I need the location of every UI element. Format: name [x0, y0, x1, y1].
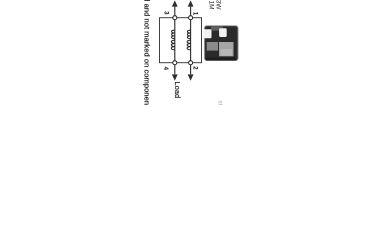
svg-text:sti: sti: [217, 101, 223, 106]
pin terminal circle 1 (left upper): [189, 16, 193, 20]
photo solder pad upper: [219, 28, 227, 37]
arrow at pin 1 pointing left: [188, 0, 194, 15]
svg-text:ted and not marked on componen: ted and not marked on component an: [143, 0, 152, 105]
component photo: SMD common-mode choke: [204, 26, 239, 61]
pin terminal circle 3 (left lower): [173, 16, 177, 20]
arrow at pin 2 pointing right to load: [188, 65, 194, 81]
Load label: [173, 82, 182, 99]
photo body: [204, 26, 238, 61]
photo solder pad lower: [204, 29, 212, 38]
winding L1 (pins 1-2), upper wire: [187, 20, 190, 61]
svg-text:Load: Load: [173, 82, 182, 99]
pin terminal circle 2 (right upper): [189, 61, 193, 65]
svg-text:1M: 1M: [208, 0, 215, 9]
arrow at pin 3 pointing left: [172, 0, 178, 15]
pin number 3 label: [163, 11, 170, 15]
caption text line: and not marked on component: [143, 0, 152, 118]
svg-text:2: 2: [191, 66, 198, 70]
svg-text:3: 3: [163, 11, 170, 15]
photo left gray band: [211, 26, 223, 30]
photo mid gray panel: [207, 42, 218, 51]
photo panel shading: [221, 49, 233, 56]
schematic: component outline box: [160, 18, 202, 63]
photo body inner dark: [206, 27, 237, 59]
pin terminal circle 4 (right lower): [173, 61, 177, 65]
photo top face light panel: [219, 42, 234, 56]
svg-text:1: 1: [192, 12, 199, 16]
winding L2 (pins 3-4), lower wire: [171, 20, 175, 61]
arrow at pin 4 pointing right to load: [172, 65, 178, 81]
pin number 1 label: [192, 12, 199, 16]
clipped spec text fragment line 2: [208, 0, 215, 9]
photo dark edge right: [206, 58, 237, 61]
pin number 2 label: [191, 66, 198, 70]
clipped spec text fragment line 1: [215, 0, 222, 10]
svg-text:4: 4: [162, 67, 169, 71]
pin number 4 label: [162, 67, 169, 71]
svg-text:3W: 3W: [215, 0, 222, 10]
clipped faint text fragment at right edge: [217, 101, 223, 108]
